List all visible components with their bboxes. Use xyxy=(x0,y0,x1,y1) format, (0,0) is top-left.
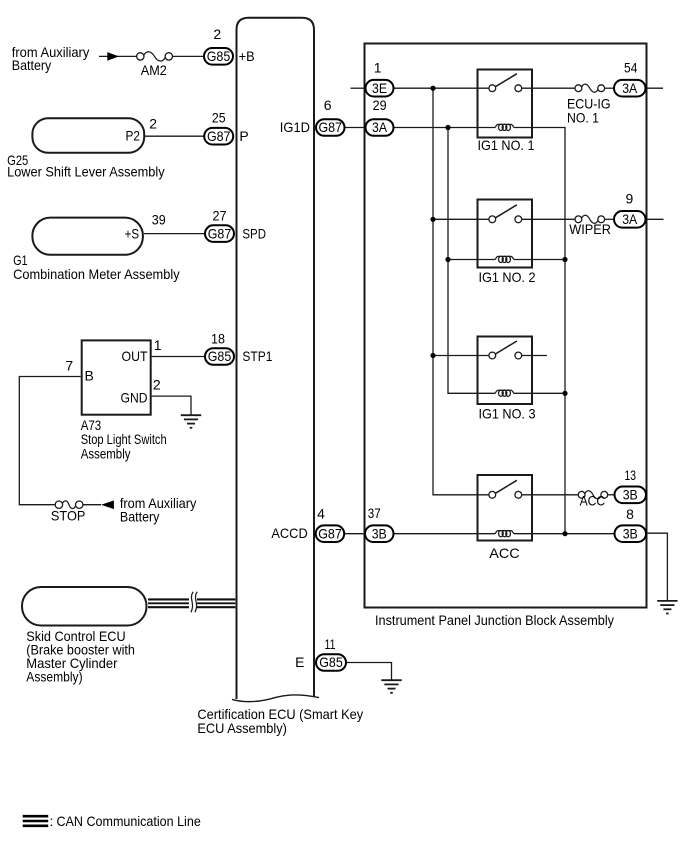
wire relay ACC switch to fuse ACC xyxy=(518,494,581,496)
svg-text:18: 18 xyxy=(211,330,225,346)
svg-text:6: 6 xyxy=(324,97,332,113)
svg-text:3E: 3E xyxy=(372,80,387,96)
svg-text:+S: +S xyxy=(125,225,139,241)
relay IG1 NO.3 switch xyxy=(489,341,522,359)
node stub right of 3A pin 54 xyxy=(646,87,664,89)
wire fuse ACC to 3B pin 13 xyxy=(604,494,615,496)
relay box IG1 NO. 3 xyxy=(478,337,533,405)
Certification ECU torn bottom edge xyxy=(232,695,319,702)
wire 3B pin 37 to relay ACC coil xyxy=(394,533,496,535)
wire A73 GND to ground xyxy=(152,396,191,415)
svg-text:AM2: AM2 xyxy=(141,62,167,78)
svg-text:3B: 3B xyxy=(623,525,638,541)
ground at connector G85 pin E xyxy=(381,680,401,693)
junction dot bus1 on 3E wire xyxy=(430,86,435,91)
svg-text:1: 1 xyxy=(154,337,162,353)
arrow from auxiliary battery (row STOP) xyxy=(101,501,114,510)
relay box IG1 NO. 1 xyxy=(478,70,533,138)
node stub left of 3E pin 1 xyxy=(351,87,367,89)
wire relay IG1 NO.1 switch to fuse ECU-IG NO.1 xyxy=(518,87,578,89)
Certification ECU box outline xyxy=(237,18,315,699)
svg-text:Instrument Panel Junction Bloc: Instrument Panel Junction Block Assembly xyxy=(375,612,614,628)
svg-text:G87: G87 xyxy=(208,225,232,241)
relay box ACC xyxy=(478,475,533,541)
svg-text:1: 1 xyxy=(374,59,382,75)
svg-text:E: E xyxy=(295,654,304,670)
svg-text:G85: G85 xyxy=(319,654,343,670)
svg-text:IG1D: IG1D xyxy=(280,119,310,135)
wire connector G85 pin E to ground xyxy=(346,663,392,680)
wire bus1 to relay IG1 NO.3 switch xyxy=(433,355,492,357)
wire from-auxiliary-battery to fuse AM2 xyxy=(99,55,140,57)
svg-text:13: 13 xyxy=(625,467,637,483)
relay IG1 NO.2 coil xyxy=(495,256,514,262)
svg-text:11: 11 xyxy=(325,636,336,652)
connector oval G87 pin 25 (P) xyxy=(204,128,233,145)
junction dot bus1 relay IG1 NO.2 switch xyxy=(430,217,435,222)
connector oval G87 pin 6 (IG1D) xyxy=(316,119,345,136)
wire A73 pin B to fuse STOP xyxy=(19,377,80,505)
wire G1 +S to connector G87 pin SPD xyxy=(144,233,205,235)
connector oval G87 pin 27 (SPD) xyxy=(205,225,234,242)
fuse ACC xyxy=(578,491,608,499)
svg-text:3A: 3A xyxy=(622,80,638,96)
connector oval 3B pin 37 xyxy=(365,525,394,542)
svg-text:+B: +B xyxy=(239,48,255,64)
svg-text:3A: 3A xyxy=(622,211,638,227)
svg-text:7: 7 xyxy=(65,358,73,374)
wire relay IG1 NO.3 coil to bus3 xyxy=(514,392,565,394)
A73 Stop Light Switch Assembly box xyxy=(82,340,151,414)
wire G25 P2 to connector G87 pin P xyxy=(145,135,205,137)
relay box IG1 NO. 2 xyxy=(478,200,533,268)
connector oval G85 pin 11 (E) xyxy=(316,654,346,671)
svg-text:ACCD: ACCD xyxy=(271,525,307,541)
wire connector G87 ACCD to 3B pin 37 xyxy=(344,533,366,535)
junction dot bus2 on pin29 wire xyxy=(445,125,450,130)
fuse ECU-IG NO.1 xyxy=(575,84,605,92)
relay IG1 NO.1 coil xyxy=(495,124,514,130)
svg-text:8: 8 xyxy=(626,506,634,522)
wire fuse ECU-IG NO.1 to 3A pin 54 xyxy=(601,87,614,89)
relay IG1 NO.1 switch xyxy=(489,74,522,92)
bus2 vertical from 3A pin29 wire to relay IG1 NO.3 coil xyxy=(448,128,495,394)
G25 Lower Shift Lever Assembly box xyxy=(32,118,144,153)
fuse AM2 xyxy=(137,52,173,61)
wire fuse AM2 to connector G85 pin +B xyxy=(169,55,204,57)
ground at 3B pin 8 xyxy=(657,601,677,614)
svg-text:CAN Communication Line: CAN Communication Line xyxy=(57,813,201,829)
connector oval 3A pin 54 xyxy=(614,80,646,97)
G1 Combination Meter Assembly box xyxy=(32,218,142,255)
svg-text:ACC: ACC xyxy=(580,493,606,509)
wire 3B pin 8 to ground xyxy=(646,533,667,600)
wire bus1 to relay IG1 NO.2 switch xyxy=(433,218,492,220)
wire relay IG1 NO.1 coil to bus3 xyxy=(514,128,565,534)
svg-text:2: 2 xyxy=(149,116,157,132)
relay IG1 NO.3 coil xyxy=(495,390,514,396)
svg-text:G87: G87 xyxy=(318,525,342,541)
svg-text:SPD: SPD xyxy=(242,225,266,241)
svg-text:Assembly: Assembly xyxy=(81,446,131,462)
svg-text::: : xyxy=(50,813,54,829)
CAN communication line Skid Control ECU to ECU xyxy=(148,599,235,607)
svg-text:NO. 1: NO. 1 xyxy=(567,110,599,126)
node stub right of relay IG1 NO.3 switch xyxy=(518,355,547,357)
wire 3E pin 1 to relay IG1 NO.1 switch xyxy=(394,87,493,89)
connector oval 3B pin 13 xyxy=(615,487,647,504)
connector oval G85 pin 2 (+B) xyxy=(204,48,233,65)
svg-text:27: 27 xyxy=(213,208,227,224)
svg-text:29: 29 xyxy=(373,97,387,113)
Instrument Panel Junction Block box xyxy=(365,44,647,608)
svg-text:3B: 3B xyxy=(372,525,387,541)
wire fuse WIPER to 3A pin 9 xyxy=(601,218,614,220)
Skid Control ECU box xyxy=(22,587,147,626)
wire relay IG1 NO.2 switch to fuse WIPER xyxy=(518,218,578,220)
svg-text:STOP: STOP xyxy=(51,508,86,524)
connector oval G85 pin 18 (STP1) xyxy=(205,348,234,365)
svg-text:IG1 NO. 1: IG1 NO. 1 xyxy=(478,137,535,153)
ground at A73 GND xyxy=(181,415,201,428)
wire bus2 to relay IG1 NO.2 coil xyxy=(448,259,496,261)
CAN line break symbol xyxy=(189,592,197,613)
svg-text:B: B xyxy=(85,368,94,384)
svg-text:GND: GND xyxy=(121,389,148,405)
svg-text:25: 25 xyxy=(212,110,226,126)
wire A73 OUT to connector G85 pin STP1 xyxy=(152,356,205,358)
junction dot bus1 relay IG1 NO.3 switch xyxy=(430,353,435,358)
svg-text:Assembly): Assembly) xyxy=(26,668,82,684)
svg-text:G85: G85 xyxy=(208,348,232,364)
svg-text:P: P xyxy=(239,128,248,144)
wire 3A pin 29 to relay IG1 NO.1 coil xyxy=(394,127,496,129)
svg-text:Combination Meter Assembly: Combination Meter Assembly xyxy=(13,266,180,282)
svg-text:G87: G87 xyxy=(207,128,231,144)
svg-text:4: 4 xyxy=(317,505,325,521)
junction dot bus3 relay ACC coil xyxy=(562,531,567,536)
wire relay ACC coil to 3B pin 8 xyxy=(514,533,615,535)
relay ACC switch xyxy=(489,480,522,498)
connector oval G87 pin 4 (ACCD) xyxy=(316,525,345,542)
svg-text:IG1 NO. 2: IG1 NO. 2 xyxy=(479,269,536,285)
connector oval 3B pin 8 xyxy=(615,525,647,542)
svg-text:54: 54 xyxy=(624,59,637,75)
fuse STOP xyxy=(55,501,83,509)
svg-text:IG1 NO. 3: IG1 NO. 3 xyxy=(479,405,536,421)
wire connector G87 IG1D to 3A pin 29 xyxy=(345,127,367,129)
svg-text:OUT: OUT xyxy=(122,348,148,364)
svg-text:ACC: ACC xyxy=(489,545,519,561)
svg-text:STP1: STP1 xyxy=(242,348,272,364)
svg-text:37: 37 xyxy=(368,505,381,521)
bus1 vertical from 3E wire to relay ACC switch xyxy=(433,88,492,495)
svg-text:ECU Assembly): ECU Assembly) xyxy=(197,720,287,736)
svg-text:P2: P2 xyxy=(126,128,141,144)
svg-text:3A: 3A xyxy=(372,119,388,135)
connector oval 3E pin 1 xyxy=(366,80,394,97)
wire relay IG1 NO.2 coil to bus3 xyxy=(514,259,565,261)
svg-text:Battery: Battery xyxy=(120,508,159,524)
svg-text:G87: G87 xyxy=(318,119,342,135)
svg-text:2: 2 xyxy=(213,26,221,42)
connector oval 3A pin 9 xyxy=(614,211,646,228)
svg-text:3B: 3B xyxy=(623,487,638,503)
relay IG1 NO.2 switch xyxy=(489,205,522,223)
wire fuse STOP to arrow from auxiliary battery xyxy=(79,504,101,506)
svg-text:WIPER: WIPER xyxy=(569,221,611,237)
svg-text:Battery: Battery xyxy=(12,57,52,73)
junction dot bus3 relay IG1 NO.2 coil xyxy=(562,257,567,262)
svg-text:Lower Shift Lever Assembly: Lower Shift Lever Assembly xyxy=(7,164,165,180)
legend CAN line symbol xyxy=(23,816,49,826)
connector oval 3A pin 29 xyxy=(366,119,394,136)
fuse WIPER xyxy=(575,215,605,223)
svg-text:39: 39 xyxy=(152,211,166,227)
junction dot bus3 relay IG1 NO.3 coil xyxy=(562,391,567,396)
svg-text:G85: G85 xyxy=(207,48,231,64)
arrow from auxiliary battery (row +B) xyxy=(107,52,119,61)
relay ACC coil xyxy=(495,530,514,536)
svg-text:9: 9 xyxy=(626,191,634,207)
node stub right of 3A pin 9 xyxy=(646,218,664,220)
junction dot bus2 relay IG1 NO.2 coil xyxy=(445,257,450,262)
svg-text:2: 2 xyxy=(153,377,161,393)
